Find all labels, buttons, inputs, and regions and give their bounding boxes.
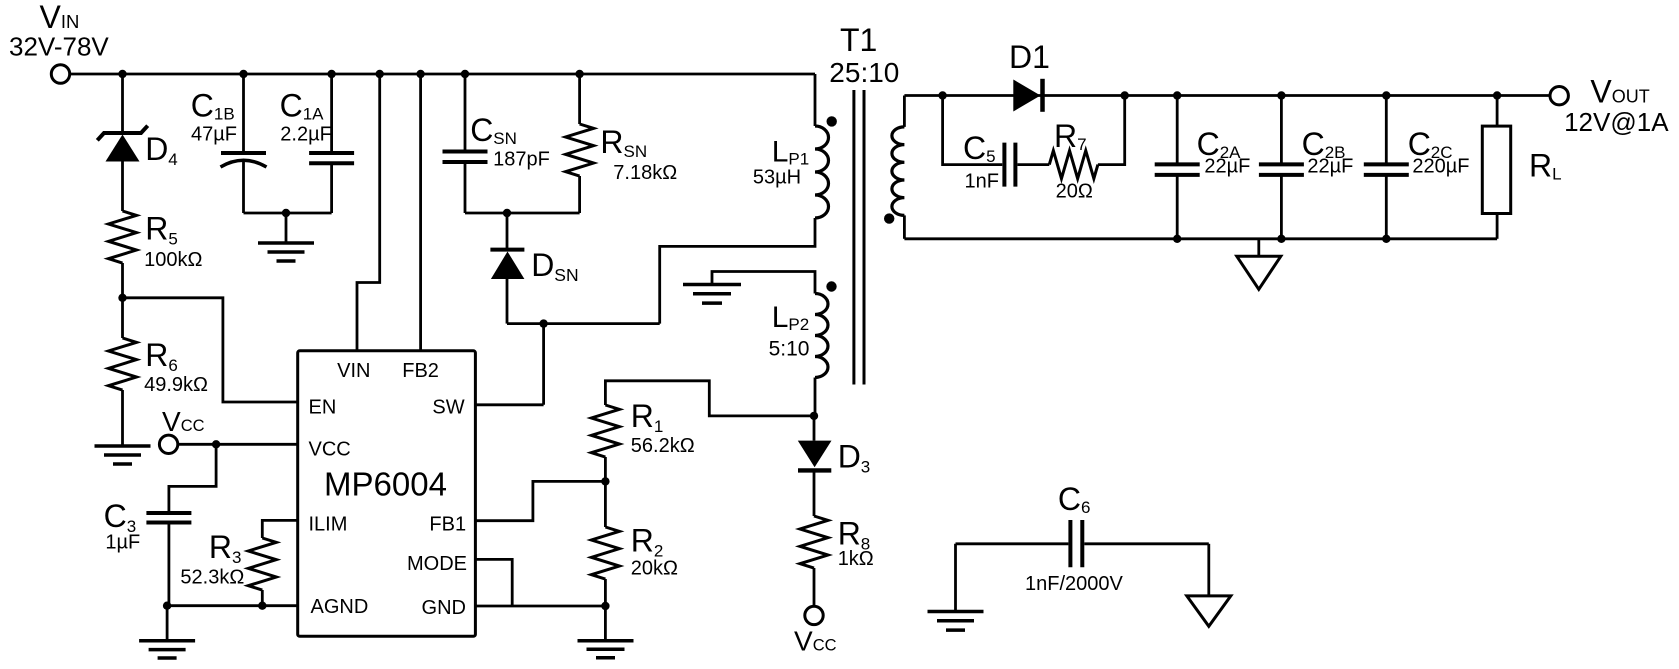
terminal VIN xyxy=(51,65,69,83)
wire secondary top lead xyxy=(903,96,906,127)
svg-text:7.18kΩ: 7.18kΩ xyxy=(613,162,677,184)
wire SW pin xyxy=(475,324,543,405)
svg-text:22µF: 22µF xyxy=(1204,155,1250,177)
ground at C6 left xyxy=(928,612,984,631)
resistor R2 xyxy=(591,527,619,579)
svg-text:EN: EN xyxy=(309,397,337,419)
ground at R2 GND xyxy=(578,641,634,658)
svg-text:1nF: 1nF xyxy=(965,171,999,193)
svg-text:5:10: 5:10 xyxy=(769,338,810,361)
capacitor C2B xyxy=(1259,164,1304,175)
wire C1A top xyxy=(330,74,333,153)
LP2 phase dot xyxy=(826,281,836,291)
transformer T1 core xyxy=(854,90,864,385)
capacitor C5 xyxy=(1004,143,1015,187)
wire C2C bottom xyxy=(1385,175,1388,239)
wire DSN bottom xyxy=(506,279,509,324)
capacitor C3 xyxy=(146,513,191,523)
wire R1 bottom to FB1 node xyxy=(604,457,607,481)
svg-text:1kΩ: 1kΩ xyxy=(838,548,874,570)
resistor R5 xyxy=(109,211,137,263)
capacitor C6 xyxy=(1070,520,1082,567)
wire VIN pin xyxy=(357,74,380,351)
svg-text:20kΩ: 20kΩ xyxy=(631,558,678,580)
wire R5 to EN junction xyxy=(121,263,124,338)
svg-text:VIN: VIN xyxy=(337,360,370,382)
wire R1 top to LP2 node xyxy=(605,381,815,416)
svg-text:D1: D1 xyxy=(1009,39,1050,75)
wire R2 top xyxy=(604,481,607,527)
wire EN net xyxy=(123,298,298,402)
wire D4 to R5 xyxy=(121,162,124,212)
svg-text:FB1: FB1 xyxy=(429,514,466,536)
wire CSN top xyxy=(464,74,467,152)
svg-text:VCC: VCC xyxy=(309,439,351,461)
wire MODE pin xyxy=(475,559,512,606)
wire D4 branch top xyxy=(121,74,124,131)
diode DSN xyxy=(490,250,524,279)
wire GND pin rail xyxy=(475,605,605,608)
wire FB2 pin xyxy=(419,74,422,351)
inductor LP2 auxiliary winding xyxy=(815,294,828,378)
resistor R1 xyxy=(591,405,619,457)
svg-text:12V@1A: 12V@1A xyxy=(1564,107,1669,137)
svg-text:2.2µF: 2.2µF xyxy=(280,124,332,146)
ground at LP2 top xyxy=(683,285,741,304)
svg-text:32V-78V: 32V-78V xyxy=(9,31,109,61)
wire output ground stub xyxy=(1257,239,1260,256)
svg-text:T1: T1 xyxy=(840,22,877,58)
svg-text:22µF: 22µF xyxy=(1307,155,1353,177)
resistor RSN xyxy=(566,124,594,176)
wire C5 to R7 xyxy=(1018,163,1050,166)
wire C1B top xyxy=(242,74,245,153)
terminal VOUT xyxy=(1550,87,1568,105)
svg-text:56.2kΩ: 56.2kΩ xyxy=(631,435,695,457)
resistor R7 xyxy=(1049,151,1098,179)
svg-text:52.3kΩ: 52.3kΩ xyxy=(180,566,244,588)
earth triangle ground at output xyxy=(1237,256,1281,289)
wire R2 bottom xyxy=(604,579,607,606)
wire RSN bottom xyxy=(578,176,581,213)
wire C6 left ground leg xyxy=(954,544,957,612)
ground at C3 AGND xyxy=(139,641,195,658)
junction dots secondary xyxy=(938,91,1501,243)
diode D1 xyxy=(1013,79,1042,112)
wire secondary bottom lead xyxy=(903,215,906,238)
LP1 phase dot xyxy=(827,116,837,126)
wire C1 bottom rail xyxy=(244,212,332,215)
wire LP2 node to D3 xyxy=(813,416,816,441)
svg-text:187pF: 187pF xyxy=(493,149,550,171)
wire C2A top xyxy=(1176,96,1179,165)
svg-text:GND: GND xyxy=(422,597,466,619)
capacitor C1A xyxy=(309,153,354,163)
wire DSN top xyxy=(506,213,509,248)
wire FB1 pin xyxy=(475,481,605,520)
resistor R8 xyxy=(800,516,828,568)
wire AGND ground stub xyxy=(166,606,169,641)
wire C1A bottom xyxy=(330,163,333,213)
wire C6 right xyxy=(1084,542,1209,545)
wire RL bottom lead xyxy=(1496,214,1499,239)
ground at R6 xyxy=(95,446,151,464)
svg-text:1nF/2000V: 1nF/2000V xyxy=(1025,573,1124,595)
wire top input rail VIN xyxy=(70,73,815,76)
wire RSN top xyxy=(578,74,581,124)
wire C1B bottom xyxy=(242,161,245,213)
resistor R3 xyxy=(248,538,276,590)
inductor LP1 primary winding xyxy=(815,126,829,218)
capacitor C1B xyxy=(221,153,267,167)
wire SW net horizontal xyxy=(507,322,660,325)
wire LP2 top to ground xyxy=(712,272,815,294)
earth triangle ground at C6 right xyxy=(1187,596,1231,626)
svg-text:ILIM: ILIM xyxy=(309,514,348,536)
wire C2A bottom xyxy=(1176,175,1179,239)
capacitor C2A xyxy=(1155,164,1200,175)
svg-text:MODE: MODE xyxy=(407,553,467,575)
junction dots primary xyxy=(118,70,818,610)
wire VCC to C3 jog xyxy=(169,444,216,513)
IC U1 MP6004 box xyxy=(298,351,476,637)
wire AGND rail xyxy=(167,604,298,607)
wire GND ground stub xyxy=(604,606,607,641)
svg-text:1µF: 1µF xyxy=(105,532,140,554)
svg-text:25:10: 25:10 xyxy=(829,57,899,88)
wire C2B bottom xyxy=(1280,175,1283,239)
svg-text:FB2: FB2 xyxy=(402,360,439,382)
svg-text:53µH: 53µH xyxy=(753,167,801,189)
wire D3 to R8 xyxy=(813,470,816,517)
wire R3 bottom xyxy=(261,590,264,606)
wire LP2 bottom lead xyxy=(814,378,817,416)
zener diode D4 xyxy=(97,126,147,162)
wire SW to LP1 xyxy=(660,218,815,324)
resistor R6 xyxy=(109,338,137,390)
wire R7 right leg xyxy=(1098,96,1125,165)
capacitor C2C xyxy=(1364,164,1409,175)
wire C6 right ground leg xyxy=(1207,544,1210,596)
wire C6 left xyxy=(956,542,1069,545)
resistor RL xyxy=(1482,126,1510,213)
wire C3 bottom xyxy=(167,523,170,606)
wire R6 to ground xyxy=(121,390,124,446)
wire VCC terminal to pin xyxy=(178,443,298,446)
wire CSN bottom xyxy=(464,162,467,213)
wire ILIM pin to R3 xyxy=(262,520,297,538)
svg-text:MP6004: MP6004 xyxy=(324,466,447,503)
inductor secondary winding xyxy=(892,127,905,215)
svg-text:220µF: 220µF xyxy=(1412,155,1469,177)
wire LP1 top lead xyxy=(814,74,817,126)
svg-text:49.9kΩ: 49.9kΩ xyxy=(144,374,208,396)
diode D3 xyxy=(798,441,832,471)
wire RL top lead xyxy=(1496,96,1499,127)
ground at C1 bank xyxy=(258,243,314,261)
svg-text:47µF: 47µF xyxy=(191,124,237,146)
capacitor CSN xyxy=(443,152,488,163)
svg-text:100kΩ: 100kΩ xyxy=(144,249,202,271)
wire C2B top xyxy=(1280,96,1283,165)
wire C2C top xyxy=(1385,96,1388,165)
secondary phase dot xyxy=(884,213,894,223)
wire C1 ground stub xyxy=(285,213,288,243)
terminal VCC left xyxy=(159,435,177,453)
wire R8 to VCC terminal xyxy=(813,568,816,606)
terminal VCC bottom xyxy=(805,606,823,624)
wire snubber bottom rail xyxy=(465,212,580,215)
svg-text:20Ω: 20Ω xyxy=(1056,180,1093,202)
svg-text:AGND: AGND xyxy=(311,596,369,618)
wire output bottom rail xyxy=(904,237,1497,240)
svg-text:SW: SW xyxy=(432,397,464,419)
wire C5R7 left leg xyxy=(943,96,1003,165)
wire secondary output rail xyxy=(904,94,1550,97)
